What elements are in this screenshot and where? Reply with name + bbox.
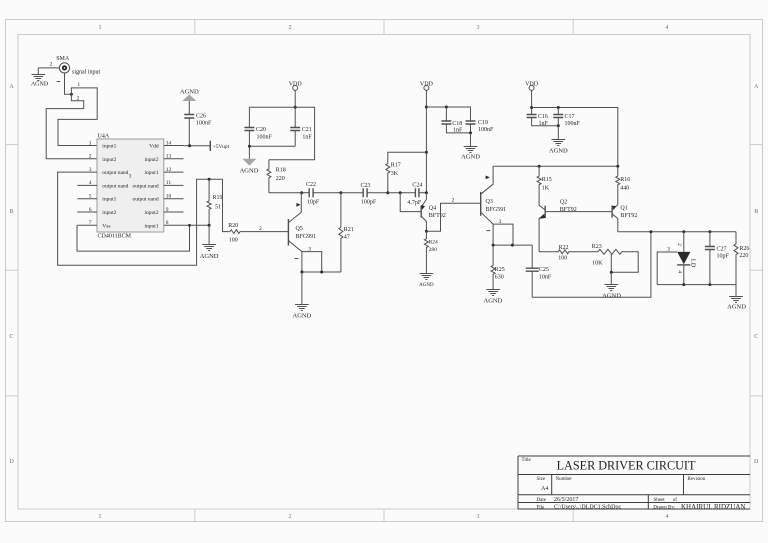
svg-text:R16: R16 [620, 177, 630, 183]
capacitor C18 1nF [441, 107, 470, 134]
svg-text:220: 220 [276, 176, 285, 182]
wire VDD down to C16 [531, 90, 533, 114]
resistor R16 440 [616, 166, 631, 205]
junction Q3 emitter right [511, 244, 514, 247]
svg-text:R17: R17 [391, 163, 401, 169]
wire net 2 to Q3 base [426, 203, 480, 231]
row ticks right [750, 145, 763, 396]
svg-text:2: 2 [77, 95, 80, 101]
wire Q4 base [400, 193, 421, 212]
wire net from pin 3 output nand [58, 172, 223, 265]
svg-text:630: 630 [495, 274, 504, 280]
svg-text:Revision: Revision [688, 477, 706, 482]
svg-text:R25: R25 [495, 267, 505, 273]
svg-text:AGND: AGND [727, 303, 746, 310]
junction VDD/C18 branch [425, 106, 428, 109]
svg-text:220: 220 [739, 253, 748, 259]
pin 3 stub [77, 171, 97, 173]
junction R15 top [538, 165, 541, 168]
junction C18 top [445, 106, 448, 109]
power VDD symbol left [289, 82, 303, 91]
column ticks top [195, 20, 573, 35]
svg-text:output nand: output nand [132, 183, 158, 189]
junction Q4 emitter node [425, 191, 428, 194]
svg-text:BFG591: BFG591 [486, 207, 507, 213]
resistor R15 1K [537, 166, 552, 205]
junction LD top [682, 230, 685, 233]
svg-text:C25: C25 [539, 267, 549, 273]
wire C18/C19 top bar [426, 107, 470, 121]
junction C16/C17 bottom [557, 124, 560, 127]
wire C23 node to C24 [388, 192, 416, 194]
svg-text:BFT92: BFT92 [429, 213, 446, 219]
junction Q5 collector node [300, 191, 303, 194]
svg-text:U4A: U4A [98, 133, 110, 139]
svg-text:BFT92: BFT92 [620, 213, 637, 219]
connector J SMA [56, 56, 100, 76]
pin 6 stub [77, 211, 97, 213]
svg-text:R21: R21 [344, 227, 354, 233]
svg-text:input1: input1 [102, 144, 116, 150]
capacitor C17 100nF [553, 108, 580, 127]
svg-text:3: 3 [89, 167, 92, 173]
wire R18 to Q5 collector node [269, 192, 302, 194]
wire collector rail Q3 to R16 [493, 165, 618, 167]
ground AGND below R19 [200, 225, 219, 259]
svg-text:VDD: VDD [420, 82, 434, 88]
capacitor C24 4.7pF [407, 183, 426, 206]
row ticks left [6, 145, 19, 396]
svg-text:3: 3 [308, 246, 311, 252]
ground AGND below C19 [461, 133, 480, 161]
ground AGND below R24 [419, 274, 434, 288]
svg-text:C24: C24 [412, 183, 422, 189]
svg-text:4.7pF: 4.7pF [407, 200, 422, 206]
wire R20 to Q5 base [240, 231, 288, 233]
svg-text:3K: 3K [391, 171, 399, 177]
svg-text:File: File [537, 505, 546, 510]
svg-text:Q1: Q1 [620, 205, 627, 211]
wire SMA pin2 to ground [38, 67, 59, 69]
laser diode LD [676, 232, 697, 285]
svg-text:output nand: output nand [132, 197, 158, 203]
wire Q1 collector line to R26 [618, 231, 736, 233]
svg-text:2: 2 [676, 243, 682, 246]
junction R23 wiper [610, 271, 613, 274]
svg-text:Vss: Vss [102, 223, 110, 229]
svg-text:A4: A4 [541, 486, 548, 492]
svg-text:signal input: signal input [72, 70, 100, 76]
svg-text:input2: input2 [145, 210, 159, 216]
junction Q4 collector node [425, 230, 428, 233]
svg-text:51: 51 [215, 205, 221, 211]
junction pin7/pin8 net [188, 224, 191, 227]
wire LD anode box [657, 252, 736, 285]
svg-text:440: 440 [620, 185, 629, 191]
svg-text:R22: R22 [558, 245, 568, 251]
capacitor C23 100pF [341, 183, 388, 205]
wire top bar C20-C21 box [249, 107, 314, 160]
capacitor C19 100nF [466, 120, 495, 133]
svg-text:C27: C27 [717, 247, 727, 253]
svg-text:Drawn By:: Drawn By: [653, 506, 675, 511]
junction VDD top bar [530, 106, 533, 109]
svg-text:LD: LD [689, 259, 696, 268]
wire R17 top [388, 152, 427, 163]
resistor R22 100 [539, 245, 598, 262]
pin 14 stub [164, 145, 184, 147]
wire pin 14 to +5V [184, 145, 211, 147]
pin tick of Q5 emitter [295, 258, 299, 260]
wire net to IC pin 2 [46, 94, 97, 159]
svg-text:100pF: 100pF [361, 199, 377, 205]
svg-text:4: 4 [666, 514, 669, 520]
svg-text:4: 4 [666, 25, 669, 31]
ground AGND below R23 [602, 272, 621, 299]
svg-text:AGND: AGND [180, 88, 199, 95]
wire bottom bar C20-C21 [249, 145, 295, 147]
junction C27 top [708, 230, 711, 233]
svg-text:input2: input2 [102, 210, 116, 216]
svg-text:5: 5 [89, 194, 92, 200]
svg-text:D: D [754, 459, 759, 465]
svg-text:2: 2 [50, 62, 53, 68]
svg-text:AGND: AGND [419, 283, 434, 288]
junction Q5 emitter left [300, 271, 303, 274]
svg-text:CD4011BCM: CD4011BCM [98, 234, 132, 240]
wire net to IC pin 1 [58, 88, 97, 146]
ground AGND below C17 [549, 126, 568, 155]
svg-text:input2: input2 [102, 157, 116, 163]
wire SMA pin1 down [65, 73, 72, 94]
svg-text:1: 1 [89, 140, 92, 146]
ground AGND below R26 [727, 285, 746, 311]
svg-text:1: 1 [99, 25, 102, 31]
wire net from pin 8 [184, 224, 210, 226]
power VDD symbol middle [420, 82, 434, 91]
pin 10 stub [164, 198, 184, 200]
svg-text:1: 1 [99, 514, 102, 520]
svg-text:100nF: 100nF [257, 134, 273, 140]
ground AGND at SMA [31, 68, 49, 88]
svg-text:A: A [754, 84, 759, 90]
svg-text:1K: 1K [542, 185, 550, 191]
svg-text:2: 2 [452, 198, 455, 204]
transistor Q1 BFT92 [612, 205, 637, 232]
svg-text:100nF: 100nF [478, 127, 494, 133]
pin number 1 tick of SMA [57, 81, 61, 83]
svg-text:14: 14 [166, 140, 172, 146]
svg-text:2: 2 [89, 154, 92, 160]
junction C25 riser [649, 230, 652, 233]
svg-text:C22: C22 [306, 182, 316, 188]
svg-text:input1: input1 [145, 170, 159, 176]
svg-text:Q5: Q5 [296, 226, 303, 232]
svg-text:13: 13 [166, 154, 172, 160]
svg-text:input1: input1 [145, 223, 159, 229]
wire Q2 base to Q1 base [545, 211, 612, 213]
svg-text:KHAIRUL RIDZUAN: KHAIRUL RIDZUAN [681, 503, 745, 511]
svg-text:Q4: Q4 [429, 206, 436, 212]
svg-text:10K: 10K [592, 260, 603, 266]
svg-text:4: 4 [677, 270, 683, 273]
svg-text:Vdd: Vdd [149, 144, 159, 150]
svg-text:2: 2 [289, 25, 292, 31]
resistor R24 280 [424, 231, 438, 273]
pin 8 stub [164, 224, 184, 226]
svg-text:10nF: 10nF [539, 274, 552, 280]
svg-text:C20: C20 [256, 127, 266, 133]
ground AGND above C26 (triangle up) [180, 88, 199, 101]
capacitor C27 10pF [705, 232, 730, 285]
svg-text:1nF: 1nF [539, 121, 549, 127]
svg-text:C26: C26 [196, 114, 206, 120]
svg-text:C: C [9, 334, 13, 340]
pin 9 stub [164, 211, 184, 213]
column ticks bottom [195, 509, 573, 522]
pin 13 stub [164, 158, 184, 160]
junction LD cathode bottom [682, 283, 685, 286]
svg-text:C18: C18 [452, 121, 462, 127]
svg-text:C23: C23 [360, 183, 370, 189]
resistor R23 10K potentiometer [592, 244, 639, 272]
svg-text:C16: C16 [538, 114, 548, 120]
svg-text:AGND: AGND [602, 293, 621, 300]
junction C27 bottom [708, 283, 711, 286]
transistor Q2 BFT92 [539, 200, 577, 252]
svg-text:1nF: 1nF [453, 128, 463, 134]
wire Q5 emitter box [302, 252, 341, 272]
svg-text:100nF: 100nF [196, 120, 212, 126]
ground AGND below Q5 [293, 272, 312, 320]
capacitor C16 1nF [527, 114, 559, 127]
resistor R17 3K [386, 163, 401, 193]
ground AGND below R25 [484, 290, 503, 305]
op-amp U4A CD4011BCM body [97, 139, 164, 232]
svg-text:10pF: 10pF [307, 200, 320, 206]
pin 4 stub [77, 184, 97, 186]
svg-text:VDD: VDD [525, 82, 539, 88]
pin tick of Q3 emitter [486, 230, 490, 232]
svg-text:B: B [9, 209, 13, 215]
svg-text:R20: R20 [228, 223, 238, 229]
junction R19 bottom [208, 224, 211, 227]
svg-text:AGND: AGND [293, 313, 312, 320]
svg-text:AGND: AGND [549, 147, 568, 154]
junction C20 bottom [248, 145, 251, 148]
pin 11 stub [164, 184, 184, 186]
svg-text:D: D [9, 459, 14, 465]
transistor Q4 BFT92 [421, 193, 446, 232]
capacitor C22 10pF [302, 182, 341, 206]
svg-text:11: 11 [166, 180, 172, 186]
svg-text:input1: input1 [102, 197, 116, 203]
svg-text:7: 7 [89, 220, 92, 226]
svg-text:SMA: SMA [56, 56, 70, 62]
wire VDD down through C21 [294, 90, 296, 127]
svg-text:3: 3 [499, 219, 502, 225]
svg-text:of: of [673, 498, 678, 503]
junction R17 branch [425, 151, 428, 154]
svg-text:A: A [9, 84, 14, 90]
resistor R25 630 [491, 245, 505, 289]
svg-text:100: 100 [229, 237, 238, 243]
junction rail / R16 [616, 165, 619, 168]
power +5Vupt bar [210, 141, 229, 151]
resistor R21 47 [339, 193, 354, 272]
junction Q4 base branch [399, 191, 402, 194]
transistor Q3 BFG591 [481, 166, 506, 224]
svg-text:VDD: VDD [289, 82, 303, 88]
junction R19 top [208, 178, 211, 181]
junction R21 top [339, 191, 342, 194]
svg-text:LASER DRIVER CIRCUIT: LASER DRIVER CIRCUIT [557, 458, 696, 472]
svg-text:Q2: Q2 [560, 200, 567, 206]
svg-text:280: 280 [429, 247, 438, 253]
junction C26/pin14 [188, 144, 191, 147]
svg-text:6: 6 [89, 207, 92, 213]
title block vertical dividers [552, 475, 684, 510]
svg-text:10pF: 10pF [717, 253, 730, 259]
wire R19 bar to R20 [223, 179, 230, 231]
svg-text:output nand: output nand [102, 170, 128, 176]
svg-text:26/5/2017: 26/5/2017 [554, 497, 578, 503]
svg-text:AGND: AGND [461, 154, 480, 161]
svg-text:AGND: AGND [200, 253, 219, 260]
junction R17 bottom [386, 191, 389, 194]
svg-text:AGND: AGND [240, 167, 259, 174]
capacitor C21 1nF [290, 127, 312, 146]
svg-text:2: 2 [289, 514, 292, 520]
capacitor C26 100nF [184, 101, 212, 146]
capacitor C25 10nF [526, 245, 552, 297]
junction Q3 emitter left [492, 244, 495, 247]
svg-text:100nF: 100nF [565, 121, 581, 127]
transistor Q5 BFG991 [288, 193, 316, 252]
junction VDD / top bar [294, 106, 297, 109]
capacitor C20 100nF [244, 107, 272, 146]
svg-text:AGND: AGND [31, 82, 49, 88]
svg-text:8: 8 [166, 220, 169, 226]
svg-text:Q3: Q3 [486, 199, 493, 205]
resistor R19 51 [207, 179, 222, 225]
svg-text:Title: Title [522, 458, 532, 463]
ground AGND below C20 (triangle down) [240, 146, 259, 174]
svg-text:+5Vupt: +5Vupt [213, 144, 230, 150]
title block outline [518, 456, 750, 509]
svg-text:R19: R19 [213, 195, 223, 201]
svg-text:C:\Users\..\DLDC1.SchDoc: C:\Users\..\DLDC1.SchDoc [554, 505, 622, 511]
svg-text:1: 1 [77, 82, 80, 88]
svg-text:R18: R18 [276, 167, 286, 173]
svg-text:Sheet: Sheet [654, 498, 666, 503]
pin 5 stub [77, 198, 97, 200]
resistor R26 220 [734, 232, 749, 285]
svg-text:R23: R23 [592, 244, 602, 250]
svg-text:AGND: AGND [484, 298, 503, 305]
svg-text:Size: Size [537, 477, 546, 482]
svg-text:4: 4 [89, 180, 92, 186]
svg-text:C19: C19 [478, 120, 488, 126]
svg-text:1nF: 1nF [302, 134, 312, 140]
junction Q5 emitter right [320, 271, 323, 274]
pin 12 stub [164, 171, 184, 173]
junction C19 bottom [469, 131, 472, 134]
svg-text:3: 3 [667, 246, 670, 252]
svg-text:12: 12 [166, 167, 172, 173]
resistor R18 220 [267, 160, 286, 193]
svg-text:BFG991: BFG991 [296, 234, 317, 240]
svg-text:47: 47 [344, 234, 350, 240]
svg-text:Number: Number [556, 477, 573, 482]
svg-text:C: C [754, 334, 758, 340]
power VDD symbol right [525, 82, 539, 91]
wire C25 bottom to LD line riser [532, 232, 651, 298]
svg-text:3: 3 [477, 25, 480, 31]
junction C17 top [557, 106, 560, 109]
resistor R20 100 [228, 223, 240, 243]
svg-text:R24: R24 [429, 239, 438, 245]
junction at signal split [70, 93, 73, 96]
svg-text:Date: Date [537, 498, 547, 503]
wire VDD rail down [425, 90, 427, 192]
svg-text:output nand: output nand [102, 183, 128, 189]
wire net from pin 7 Vss [77, 225, 190, 251]
svg-text:10: 10 [166, 194, 172, 200]
svg-text:3: 3 [477, 514, 480, 520]
wire top bar to rail right [532, 108, 618, 167]
svg-text:B: B [754, 209, 758, 215]
svg-text:9: 9 [166, 207, 169, 213]
svg-text:R15: R15 [542, 177, 552, 183]
svg-text:R26: R26 [739, 246, 749, 252]
svg-text:C21: C21 [302, 127, 312, 133]
wire Q3 emitter box [493, 224, 532, 245]
svg-text:100: 100 [558, 256, 567, 262]
svg-text:C17: C17 [565, 114, 575, 120]
pin 7 stub [77, 224, 97, 226]
svg-text:2: 2 [259, 226, 262, 232]
svg-text:input2: input2 [145, 157, 159, 163]
